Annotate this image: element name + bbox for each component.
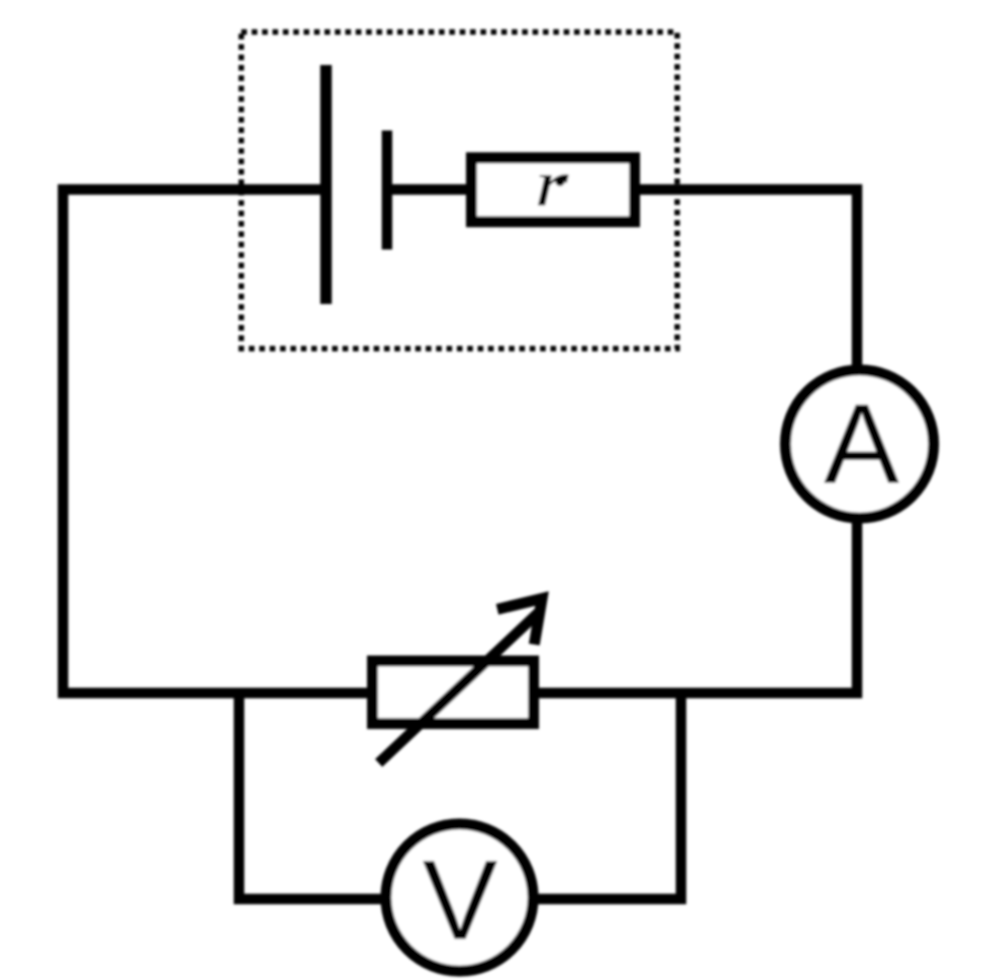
svg-text:V: V [422, 837, 497, 963]
resistor r box [472, 158, 635, 222]
wire: top-left segment, left side, bottom-left segment [63, 190, 372, 694]
svg-text:A: A [824, 381, 900, 507]
battery cell: long plate (positive) [320, 65, 332, 304]
voltmeter V circle [386, 824, 533, 971]
resistor label r [534, 147, 569, 220]
wire: voltmeter branch right [537, 688, 681, 899]
svg-text:r: r [534, 147, 569, 220]
wire: ammeter to bottom-right corner, left to rheostat [534, 522, 857, 693]
wire: resistor r to top-right corner, down to ammeter [634, 190, 857, 368]
wire: voltmeter branch left [239, 688, 382, 899]
ammeter A circle [786, 370, 934, 518]
resistor label r ball terminal [555, 177, 564, 186]
rheostat arrow shaft [379, 612, 540, 764]
wire: short plate to resistor r [387, 184, 472, 195]
dotted battery enclosure box [241, 32, 677, 349]
rheostat (variable resistor) box [373, 661, 534, 724]
rheostat arrowhead [497, 599, 542, 645]
battery cell: short plate (negative) [382, 131, 393, 250]
